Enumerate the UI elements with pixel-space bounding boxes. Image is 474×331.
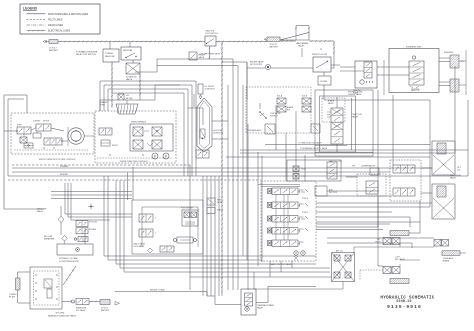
label fdm valve (17, 125, 22, 127)
vert x410 x420 (410, 201, 420, 227)
svg-text:9135-9010: 9135-9010 (387, 304, 422, 310)
bypass frame inner (142, 207, 198, 247)
svg-text:VALVE: VALVE (199, 56, 205, 59)
svg-text:PRIORITY FLOW: PRIORITY FLOW (348, 92, 362, 94)
rear axle stabilizer inner box (34, 271, 60, 305)
bus y176 (8, 175, 468, 177)
svg-text:CHECK: CHECK (217, 210, 224, 212)
svg-text:SELECTOR SWITCH: SELECTOR SWITCH (76, 54, 96, 56)
tow valve dashed box (246, 87, 311, 133)
svg-text:PORT B: PORT B (302, 212, 308, 214)
title block (380, 295, 434, 310)
svg-text:RETURN TO TANK: RETURN TO TANK (150, 289, 165, 292)
oil filter mid (200, 129, 223, 139)
priority flow divider (312, 54, 331, 72)
relief mid 196 (196, 150, 209, 158)
vent valve (207, 198, 224, 214)
shut off valve (37, 206, 64, 235)
left feed trunk 2 (8, 99, 24, 176)
aft cyl box (332, 249, 355, 281)
svg-text:10 MICRON: 10 MICRON (205, 89, 215, 91)
svg-text:DIVIDER VALVE: DIVIDER VALVE (348, 93, 362, 96)
pump valve cell3 (133, 140, 143, 149)
self level valve 1 (393, 165, 415, 173)
svg-text:MOTOR: MOTOR (43, 121, 50, 123)
filter vertical (193, 94, 195, 107)
front motor (68, 128, 84, 144)
mcv spool 1 (268, 188, 309, 195)
svg-text:BRAKE: BRAKE (287, 106, 294, 109)
svg-text:FILTER: FILTER (9, 296, 16, 298)
stab solenoid valve (72, 299, 90, 313)
solenoid B (302, 96, 311, 113)
label lift line (352, 166, 355, 168)
lift cylinder 2 (432, 184, 455, 219)
oil pan box (318, 72, 331, 85)
coil link text (287, 106, 294, 112)
mcv spool 5 (268, 240, 304, 247)
stab inner parts (35, 274, 57, 299)
bus y172 (12, 171, 346, 173)
pilot check 2 (311, 124, 320, 133)
svg-text:TRACTION: TRACTION (352, 113, 362, 116)
steering unit spool (409, 56, 424, 89)
svg-text:STEERING UNIT: STEERING UNIT (406, 47, 422, 49)
svg-text:TOW VALVE ASSY: TOW VALVE ASSY (247, 129, 262, 132)
right hor y217 (316, 216, 410, 218)
vert x243 x247 (243, 62, 247, 260)
steering unit box (389, 47, 439, 93)
vert x190 (189, 165, 191, 290)
vert mcv feeds (276, 111, 305, 181)
svg-text:LOCK SWITCH: LOCK SWITCH (205, 33, 218, 35)
svg-text:FORWARD-REVERSE: FORWARD-REVERSE (76, 50, 98, 53)
tilt lock cells (293, 166, 306, 179)
vert x254 (253, 272, 255, 289)
steering lines (331, 60, 409, 95)
svg-text:STABILIZER: STABILIZER (76, 307, 87, 310)
relief valve small (189, 52, 206, 60)
thermal bypass valve (241, 289, 275, 315)
svg-text:BRAKE: BRAKE (443, 260, 450, 263)
pump drain dash (97, 154, 172, 158)
svg-text:VALVE: VALVE (328, 102, 334, 105)
brake connects (327, 238, 434, 248)
self level valve 2 (393, 188, 415, 196)
wire electrical handbrake right down (309, 40, 335, 57)
wire electrical battery2 right (280, 40, 296, 42)
svg-text:NEUTRAL: NEUTRAL (123, 49, 133, 52)
svg-text:SOLENOID: SOLENOID (126, 76, 137, 78)
svg-text:SHIFT: SHIFT (17, 125, 22, 127)
bypass valve 4 (148, 246, 175, 253)
charge box corner (188, 108, 203, 125)
svg-text:VALVE: VALVE (352, 116, 359, 119)
pilot assembly 1 (375, 231, 409, 245)
pump left valve (99, 128, 112, 135)
vert right x430 x468 (430, 66, 468, 207)
bus y168 (12, 167, 432, 169)
svg-text:CYL: CYL (461, 61, 464, 63)
svg-text:BREATHER: BREATHER (44, 238, 55, 241)
wire electrical drop x112 (111, 62, 113, 108)
svg-text:STEERING: STEERING (444, 52, 454, 54)
svg-text:LEGEND: LEGEND (23, 7, 38, 11)
pilot3 connect (378, 250, 383, 266)
pump valve block (130, 124, 173, 151)
stab link left (62, 301, 72, 303)
svg-text:RELIEF: RELIEF (199, 55, 206, 57)
br links 2 (354, 245, 466, 254)
svg-text:SEC VALVE: SEC VALVE (395, 258, 406, 261)
right hor y227 (316, 226, 379, 228)
priority flow divider valve label (348, 92, 362, 97)
svg-text:SET 2250 PSI: SET 2250 PSI (250, 64, 262, 66)
svg-text:BATTERY: BATTERY (101, 309, 110, 312)
bypass labels (133, 243, 146, 249)
filter housing outline (197, 98, 212, 152)
label bus2 (60, 174, 68, 176)
svg-text:PILOT LINES: PILOT LINES (48, 19, 63, 22)
wire electrical battery2 left (227, 41, 267, 43)
svg-text:CYL: CYL (457, 170, 461, 172)
svg-text:RELIEF VALVE: RELIEF VALVE (250, 61, 264, 64)
bus y180 (8, 179, 261, 181)
bus y165 (12, 164, 190, 166)
wire steering down x393 (392, 95, 394, 160)
wire electrical top run (58, 41, 227, 43)
label 2speed motor (33, 121, 50, 123)
lift cylinder 1 (432, 141, 462, 175)
svg-text:SOL: SOL (287, 110, 291, 112)
front drive motor box (11, 113, 94, 161)
trunk bundle B (228, 59, 248, 290)
steering cylinder top (439, 52, 464, 68)
svg-text:SOL VALVE: SOL VALVE (76, 309, 86, 312)
br links 3 (360, 260, 420, 281)
trunk pair x258 (258, 152, 262, 266)
pump valve cell1 (133, 127, 149, 136)
solenoid valve (126, 63, 140, 81)
bypass small valve B (76, 228, 97, 234)
stab zigzag (89, 301, 100, 303)
svg-text:10 MICRON: 10 MICRON (213, 133, 223, 135)
corner bundle left (65, 183, 132, 220)
port relief box (181, 208, 198, 227)
mcv aux box (315, 186, 338, 196)
oil filter top (118, 94, 133, 100)
label mcv port (302, 197, 309, 214)
left feed trunk (4, 95, 44, 209)
svg-text:FILTER: FILTER (126, 98, 133, 100)
traction line y1445 (265, 142, 430, 145)
mcv spool 4 (268, 228, 309, 235)
svg-text:VENT: VENT (217, 200, 222, 202)
svg-text:CHARGE: CHARGE (100, 101, 108, 104)
filter lines (100, 85, 180, 111)
label bus1 (60, 165, 69, 168)
steering cylinder bottom (439, 50, 466, 95)
mcv spool 3 (268, 216, 309, 223)
traction bottom lines (315, 145, 373, 152)
fdm extra 2 (14, 127, 88, 150)
towing switch box (103, 42, 119, 62)
svg-text:PORT RELIEF: PORT RELIEF (181, 208, 194, 210)
svg-text:DRIVE AXLE: DRIVE AXLE (443, 257, 454, 260)
svg-text:FILL/CAP: FILL/CAP (44, 235, 53, 238)
nested corner 3 (108, 89, 188, 176)
svg-text:TO TRACTION LOCK VALVE: TO TRACTION LOCK VALVE (298, 142, 322, 145)
mcv top horizontals (258, 185, 300, 187)
hydraulic tank (57, 228, 93, 263)
wire electrical trunk x222 (221, 42, 223, 297)
battery B2 12 volt (264, 37, 280, 49)
br links 1 (316, 222, 420, 233)
thermal links (256, 286, 316, 302)
handbrake feed (333, 57, 335, 68)
axle brake assembly (434, 240, 460, 263)
pump circles (152, 153, 169, 159)
filter housing links (212, 121, 228, 139)
bypass frame (132, 200, 203, 254)
vert x3515 (351, 98, 353, 150)
right hor y207 (316, 206, 430, 208)
tow switch (259, 103, 281, 119)
nested corner 1 (100, 81, 196, 176)
label servo (112, 145, 119, 147)
neutral switch (121, 42, 141, 60)
relief valve (250, 61, 271, 70)
svg-text:PRIORITY FLOW: PRIORITY FLOW (312, 54, 327, 56)
steer feed y100 (276, 100, 430, 111)
bypass feed verticals (128, 167, 134, 200)
line to thermal (115, 291, 241, 305)
fdm extra 1 (16, 130, 62, 143)
svg-text:FRONT DRIVE MOTOR (SW CONTROL: FRONT DRIVE MOTOR (SW CONTROL) (39, 159, 76, 161)
right hor y222 (316, 221, 420, 223)
svg-text:TO STEERING PRIORITY VALVE: TO STEERING PRIORITY VALVE (300, 147, 328, 150)
breather small valve (74, 237, 88, 242)
stab diagonal electrical (63, 266, 76, 285)
wire steering down x378 (377, 90, 379, 250)
wire electrical handbrake up left (295, 26, 297, 41)
right hor y212 (316, 211, 392, 213)
svg-text:PILOT: PILOT (375, 242, 381, 244)
wire electrical handbrake top link (296, 25, 309, 27)
svg-text:COMPENSATOR: COMPENSATOR (361, 165, 376, 168)
towing filter (9, 272, 30, 303)
svg-text:BY-PASS: BY-PASS (89, 228, 97, 231)
svg-text:OIL FILTER: OIL FILTER (213, 130, 223, 132)
svg-text:SOL B: SOL B (302, 96, 308, 98)
svg-text:TOWING: TOWING (105, 53, 114, 55)
svg-text:VALVE: VALVE (217, 201, 223, 204)
svg-text:VALVE: VALVE (450, 177, 457, 180)
svg-text:THERMAL BYPASS: THERMAL BYPASS (257, 304, 275, 307)
svg-text:HAND BRAKE: HAND BRAKE (296, 42, 309, 45)
charge pump (116, 104, 138, 114)
label charge pump (100, 101, 108, 107)
hand brake valve (280, 33, 309, 48)
traction nested box 2 (315, 90, 373, 156)
svg-text:2-SPEED: 2-SPEED (33, 121, 41, 123)
mid dashed valve box (357, 174, 386, 196)
bus label (300, 147, 328, 150)
right hor y203 (316, 202, 432, 204)
svg-text:PRESS OVERRIDE: PRESS OVERRIDE (131, 122, 147, 124)
svg-text:REAR AXLE STABILIZER VALVE: REAR AXLE STABILIZER VALVE (48, 315, 77, 318)
bypass valve 3 (174, 237, 197, 243)
battery B1 12 volt (43, 40, 59, 53)
main control valve box (261, 181, 316, 266)
svg-text:SECTION: SECTION (329, 192, 338, 194)
pump valve cell4 (147, 140, 162, 149)
svg-text:NO FLOW: NO FLOW (89, 222, 97, 224)
traction dashed box (322, 98, 345, 122)
node dot mid (88, 204, 94, 210)
svg-text:REVERSE: REVERSE (60, 174, 68, 176)
steering pump (353, 61, 377, 95)
svg-text:VALVE: VALVE (298, 44, 305, 47)
wire stub x133 (132, 60, 134, 63)
traction label (352, 113, 362, 119)
wire priority down (302, 48, 324, 100)
svg-text:BATTERY: BATTERY (270, 46, 279, 49)
tilt lock valve (327, 162, 337, 179)
mcv spool 2 (268, 202, 309, 209)
vert mcv bottom (270, 261, 292, 277)
svg-text:OIL FILTER: OIL FILTER (205, 86, 215, 88)
corner bends bundleA (104, 176, 330, 272)
right hor y196 (316, 195, 392, 197)
bus y150 (226, 150, 468, 157)
svg-text:MAIN CONTROL VALVE: MAIN CONTROL VALVE (270, 263, 293, 266)
svg-text:LOCK VALVE: LOCK VALVE (133, 245, 145, 248)
nested corner 4 (112, 93, 184, 176)
priority link (222, 62, 334, 100)
feed lines y59 y66 (135, 59, 238, 72)
traction lock switch box (205, 30, 218, 46)
aft link (254, 282, 343, 290)
traction spool valve (327, 97, 343, 152)
svg-text:594B-19: 594B-19 (396, 299, 411, 303)
mid horizontals y192 (51, 192, 132, 199)
label pump block (131, 122, 147, 124)
self leveling box (390, 160, 461, 201)
traction nested box 1 (320, 96, 356, 152)
drive pump box (95, 111, 176, 163)
svg-text:TOW VALVE: TOW VALVE (270, 112, 281, 115)
svg-text:MAIN PRESSURE & RETURN LINES: MAIN PRESSURE & RETURN LINES (48, 13, 89, 16)
svg-text:VALVE: VALVE (126, 78, 133, 81)
pump servo (101, 140, 110, 146)
mcv inner verticals (276, 194, 288, 240)
svg-text:VALVE SW: VALVE SW (105, 55, 115, 58)
pilot assembly 2 (383, 256, 409, 283)
fdm wires (4, 128, 94, 142)
label cool line (150, 289, 165, 292)
svg-text:6FT-CHNL: 6FT-CHNL (55, 313, 64, 315)
wire electrical drop x140 (139, 74, 141, 100)
bottom bus y277 (190, 276, 332, 278)
stab battery (100, 300, 110, 313)
fdm valve 1 (17, 127, 31, 134)
pilot check 1 (265, 124, 275, 134)
svg-text:VALVE: VALVE (37, 210, 44, 213)
fdm valve 3 (44, 138, 62, 145)
svg-text:SWITCH: SWITCH (270, 116, 278, 118)
svg-text:(LOW-PRESSURE SYS): (LOW-PRESSURE SYS) (59, 261, 79, 263)
label forward-reverse selector switch (76, 50, 98, 56)
right verticals 2 (378, 160, 393, 227)
svg-text:MAX CYL LOCK: MAX CYL LOCK (329, 160, 343, 163)
filler breather (44, 235, 67, 244)
svg-text:DRAIN LINES: DRAIN LINES (48, 24, 63, 27)
svg-text:OIL PAN: OIL PAN (320, 80, 328, 83)
solenoid A (277, 95, 286, 113)
bypass valve 1 (139, 214, 157, 222)
svg-text:BATTERY: BATTERY (49, 49, 59, 52)
svg-text:HYDRAULIC OIL TANK: HYDRAULIC OIL TANK (59, 257, 79, 260)
bypass small valve A (76, 221, 97, 227)
svg-text:LIFT: LIFT (352, 166, 355, 168)
brake valve label (328, 100, 335, 106)
rear axle stabilizer outer box (30, 267, 62, 309)
nested corner 2 (104, 85, 192, 176)
svg-text:PUMP: PUMP (100, 105, 106, 107)
fdm valve 2 (36, 124, 51, 131)
svg-text:SOL A: SOL A (277, 95, 283, 98)
stab labels (48, 313, 77, 318)
wire electrical handbrake up right (308, 26, 310, 33)
svg-text:GEROTOR: GEROTOR (411, 90, 420, 92)
wire electrical lockswitch down (200, 46, 221, 59)
svg-text:VALVE: VALVE (257, 307, 264, 310)
compensator (361, 165, 379, 175)
fdm shuttle (24, 143, 33, 148)
svg-text:DRIVE PUMP (SW CONTROL): DRIVE PUMP (SW CONTROL) (120, 161, 148, 163)
trunk bundle A (203, 176, 219, 296)
svg-text:TRACT VALVE: TRACT VALVE (133, 243, 146, 246)
tilt lock outer box (287, 160, 343, 181)
legend box (20, 4, 100, 34)
label gerotor (411, 90, 420, 92)
label tow box bottom (247, 129, 262, 132)
svg-text:SHUT-OFF: SHUT-OFF (37, 208, 47, 210)
bypass valve 2 (139, 229, 157, 237)
svg-text:SERVO: SERVO (112, 145, 119, 147)
mcv relief cross (294, 251, 305, 260)
svg-text:ELECTRICAL LINES: ELECTRICAL LINES (48, 30, 71, 33)
oil filter column (198, 84, 215, 99)
right hor y191 (327, 190, 379, 192)
lift connect lines (346, 168, 432, 193)
pump valve cell2 (152, 127, 162, 136)
svg-text:AFT CYL: AFT CYL (336, 249, 343, 252)
